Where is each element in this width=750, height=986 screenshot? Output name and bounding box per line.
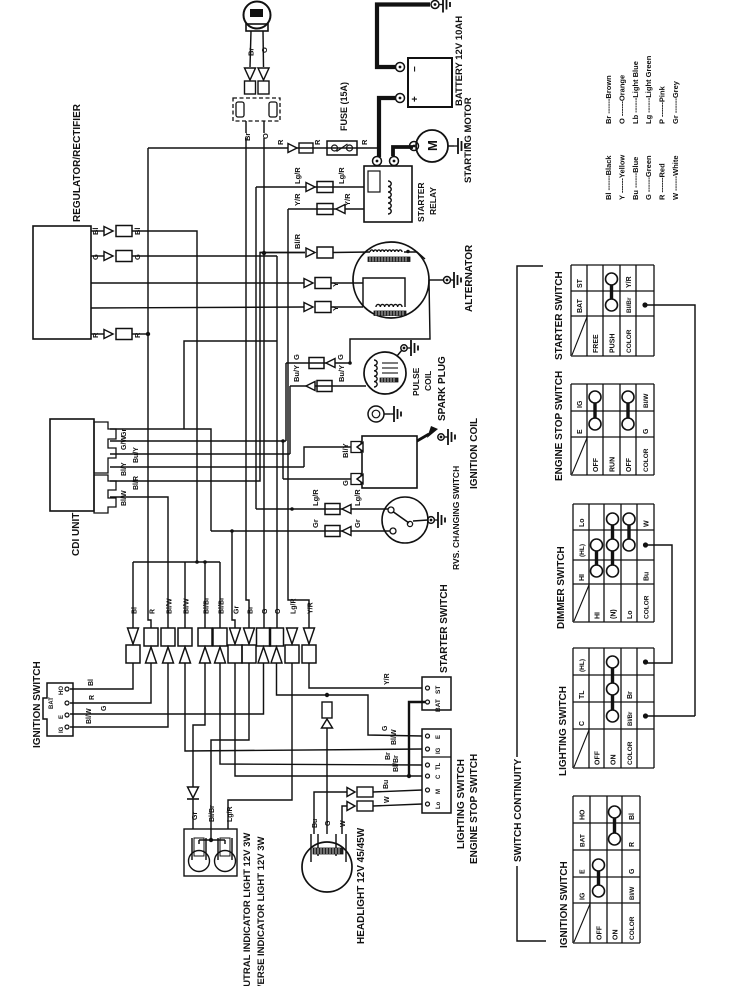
svg-text:C: C xyxy=(436,774,442,779)
bus manifold y562 xyxy=(133,560,220,564)
svg-text:REVERSE INDICATOR LIGHT 12V 3W: REVERSE INDICATOR LIGHT 12V 3W xyxy=(256,836,267,986)
wire Bu headlight xyxy=(314,792,347,834)
svg-text:Bl ------Black: Bl ------Black xyxy=(604,155,613,200)
table LIGHTING SWITCH xyxy=(573,648,654,768)
bank connector R xyxy=(144,609,158,663)
wire G/W cdi xyxy=(110,440,286,442)
starter relay box xyxy=(364,157,412,223)
ignition coil HT lead arrow xyxy=(417,426,438,441)
wire Gr to indicator xyxy=(192,799,194,829)
svg-text:Lo: Lo xyxy=(436,801,442,809)
svg-text:G: G xyxy=(262,608,269,614)
svg-text:IGNITION SWITCH: IGNITION SWITCH xyxy=(32,661,43,748)
regulator Y wire 2 xyxy=(91,307,304,308)
svg-text:STARTER SWITCH: STARTER SWITCH xyxy=(554,271,565,360)
wire Bl/Y bus xyxy=(110,466,304,468)
fuse FUSE(15A) xyxy=(327,141,357,155)
svg-text:BAT: BAT xyxy=(435,699,442,712)
bold wire BAT to Bl/Br xyxy=(409,702,425,776)
svg-text:HI: HI xyxy=(579,574,586,581)
svg-text:Gr: Gr xyxy=(353,519,362,528)
svg-text:(HL): (HL) xyxy=(579,544,586,557)
wire Bl/Y to coil xyxy=(304,447,351,467)
connector pair Bl/R xyxy=(306,247,333,258)
svg-text:Lb ------Light Blue: Lb ------Light Blue xyxy=(631,61,640,124)
svg-text:HO: HO xyxy=(579,809,586,820)
wire Br continues down xyxy=(245,121,247,133)
diode xyxy=(187,787,199,799)
wire alternator down xyxy=(350,280,430,363)
svg-text:Bl/Br: Bl/Br xyxy=(393,755,400,772)
svg-text:ENGINE STOP SWITCH: ENGINE STOP SWITCH xyxy=(554,371,565,481)
svg-text:W: W xyxy=(384,796,391,803)
svg-text:Br: Br xyxy=(247,48,256,56)
svg-text:SWITCH CONTINUITY: SWITCH CONTINUITY xyxy=(513,758,524,862)
indicator lights box xyxy=(184,829,237,876)
svg-text:W: W xyxy=(643,520,650,527)
connector pair Lg/R rvs xyxy=(325,504,351,515)
svg-text:BAT: BAT xyxy=(577,298,584,313)
svg-text:W ------White: W ------White xyxy=(671,155,680,200)
svg-text:IG: IG xyxy=(436,747,442,754)
wire G headlight xyxy=(326,727,328,834)
svg-text:Lg/R: Lg/R xyxy=(353,489,362,506)
wire Y/R to relay xyxy=(288,208,364,210)
svg-text:STARTER: STARTER xyxy=(416,182,426,222)
svg-text:IGNITION COIL: IGNITION COIL xyxy=(469,418,480,489)
wire Gr cdi xyxy=(110,429,211,531)
svg-text:Bl: Bl xyxy=(132,607,139,614)
svg-text:COLOR: COLOR xyxy=(627,741,634,765)
pulse coil circle xyxy=(364,352,406,394)
starting motor ground xyxy=(454,145,458,147)
connector pair W xyxy=(347,801,373,811)
wire R to fuse xyxy=(148,147,377,149)
svg-text:HEADLIGHT 12V 45/45W: HEADLIGHT 12V 45/45W xyxy=(356,827,367,944)
wire G to headlight junction xyxy=(277,663,423,736)
svg-text:COLOR: COLOR xyxy=(629,916,636,940)
bank connector Bl/W xyxy=(178,598,192,663)
svg-text:−: − xyxy=(410,66,421,72)
svg-text:Gr: Gr xyxy=(234,606,241,614)
svg-text:Bl/W: Bl/W xyxy=(167,598,174,614)
wire jog y341 xyxy=(184,341,277,429)
svg-text:E: E xyxy=(436,735,442,739)
svg-text:OFF: OFF xyxy=(593,457,600,472)
wire Bl to ignition sw xyxy=(70,663,133,689)
svg-text:O: O xyxy=(261,133,270,139)
wire G regulator junction xyxy=(276,256,278,628)
wire Y1 into alternator xyxy=(331,282,363,284)
svg-text:CDI UNIT: CDI UNIT xyxy=(71,513,82,556)
svg-text:W: W xyxy=(340,820,347,827)
wire G bus xyxy=(285,363,287,441)
svg-text:REGULATOR/RECTIFIER: REGULATOR/RECTIFIER xyxy=(72,103,83,222)
svg-text:G ------Green: G ------Green xyxy=(644,155,653,200)
svg-text:Gr: Gr xyxy=(121,429,128,437)
svg-text:G: G xyxy=(292,354,301,360)
left bulb xyxy=(189,838,210,872)
svg-text:IG: IG xyxy=(579,892,586,900)
svg-text:Bl/Br: Bl/Br xyxy=(628,711,634,726)
wire Bl/R to alternator xyxy=(260,252,305,254)
pulse coil ground xyxy=(397,340,418,356)
svg-text:COLOR: COLOR xyxy=(626,329,633,353)
rvs changing switch xyxy=(382,497,434,543)
svg-text:IGNITION SWITCH: IGNITION SWITCH xyxy=(559,861,570,948)
svg-text:E: E xyxy=(577,429,584,434)
svg-text:P ------Pink: P ------Pink xyxy=(658,85,667,124)
CDI connector housing upper xyxy=(94,422,116,473)
wire Br to lighting sw xyxy=(220,663,422,765)
svg-text:G: G xyxy=(643,428,650,434)
alternator stator coil xyxy=(368,250,425,262)
svg-text:NEUTRAL INDICATOR LIGHT 12V 3W: NEUTRAL INDICATOR LIGHT 12V 3W xyxy=(242,833,253,986)
bank connector Lg/R xyxy=(285,598,299,663)
svg-text:Bl/Br: Bl/Br xyxy=(626,297,633,313)
svg-text:Bl/Br: Bl/Br xyxy=(209,805,216,822)
connector pair G pulse xyxy=(309,358,335,369)
svg-text:LIGHTING SWITCH: LIGHTING SWITCH xyxy=(558,686,569,776)
svg-text:Y/R: Y/R xyxy=(384,673,391,685)
svg-text:Bu ------Blue: Bu ------Blue xyxy=(631,157,640,200)
svg-text:Bl/W: Bl/W xyxy=(184,598,191,614)
HT ground xyxy=(438,429,455,445)
svg-text:R: R xyxy=(150,609,157,614)
svg-text:RELAY: RELAY xyxy=(428,187,438,215)
svg-text:Bl: Bl xyxy=(88,679,95,686)
svg-text:C: C xyxy=(579,721,586,726)
wire Br from key switch xyxy=(250,31,251,67)
bank connector Y/R xyxy=(302,602,316,663)
svg-text:OFF: OFF xyxy=(596,925,603,940)
starting motor M xyxy=(410,130,455,162)
svg-text:Lg ------Light Green: Lg ------Light Green xyxy=(644,55,653,124)
wire Bl/Br to indicator xyxy=(211,663,249,829)
bank connector Bl/W xyxy=(161,598,175,663)
bus v205 xyxy=(204,562,206,628)
svg-text:O ------Orange: O ------Orange xyxy=(617,75,626,124)
wire Y/R to starter sw xyxy=(309,663,422,688)
svg-text:ENGINE STOP SWITCH: ENGINE STOP SWITCH xyxy=(469,754,480,864)
svg-text:Bu: Bu xyxy=(312,819,319,828)
wire Bu to switch xyxy=(373,790,422,792)
ignition switch box xyxy=(43,683,73,736)
svg-text:ALTERNATOR: ALTERNATOR xyxy=(464,244,475,312)
bulb common wire xyxy=(199,829,225,844)
svg-text:Bl/W: Bl/W xyxy=(630,886,636,900)
svg-text:Bl: Bl xyxy=(629,813,636,820)
connector pair Y1 xyxy=(304,278,340,289)
wire Gr to rvs xyxy=(211,529,390,533)
regulator G terminal xyxy=(91,251,142,262)
svg-text:COIL: COIL xyxy=(423,371,433,391)
wire O from key switch xyxy=(262,31,265,67)
wire Y/R bus xyxy=(288,209,309,628)
wire Br bus xyxy=(246,138,249,628)
connector arrows below key switch xyxy=(245,68,270,80)
battery cable negative thick xyxy=(377,5,430,68)
wire G from regulator xyxy=(132,255,277,257)
svg-text:G: G xyxy=(382,725,389,731)
svg-text:Lg/R: Lg/R xyxy=(311,489,320,506)
spark plug xyxy=(368,406,390,422)
bank connector Bl/Br xyxy=(198,597,212,663)
svg-text:Lo: Lo xyxy=(579,518,586,527)
svg-text:Br: Br xyxy=(385,752,392,760)
wire to diode xyxy=(193,663,205,787)
dashed connector box xyxy=(233,98,280,121)
svg-text:Br ------Brown: Br ------Brown xyxy=(604,75,613,124)
battery ground top xyxy=(431,0,450,13)
connector pair Y2 xyxy=(304,302,340,313)
bank connector Bl/Br xyxy=(213,597,227,663)
wire Y2 into alternator xyxy=(331,306,363,308)
svg-text:Lo: Lo xyxy=(627,610,634,619)
svg-text:DIMMER SWITCH: DIMMER SWITCH xyxy=(556,546,567,629)
svg-text:R ------Red: R ------Red xyxy=(658,163,667,200)
wire Lg/R to relay xyxy=(256,186,364,188)
svg-text:Y/R: Y/R xyxy=(308,602,315,614)
table DIMMER SWITCH xyxy=(573,504,654,622)
svg-text:R: R xyxy=(360,139,369,145)
svg-text:Bu/Y: Bu/Y xyxy=(292,365,301,382)
svg-text:RUN: RUN xyxy=(609,457,616,472)
wire G to pulse area xyxy=(286,361,352,365)
svg-text:G: G xyxy=(133,254,142,260)
svg-text:Br: Br xyxy=(627,691,634,699)
svg-text:Bl/W: Bl/W xyxy=(121,490,128,506)
wire W to switch xyxy=(373,804,422,806)
CDI unit box xyxy=(50,419,94,511)
wire Bl/Br to lighting sw xyxy=(235,663,422,778)
svg-text:+: + xyxy=(410,96,421,102)
svg-text:Bu: Bu xyxy=(383,780,390,789)
svg-text:Bl/Br: Bl/Br xyxy=(219,597,226,614)
svg-text:Bl/R: Bl/R xyxy=(133,476,140,490)
svg-text:Br: Br xyxy=(248,606,255,614)
bus v220 xyxy=(219,562,221,628)
svg-text:Y/R: Y/R xyxy=(343,193,352,206)
svg-text:G: G xyxy=(101,705,108,711)
svg-text:R: R xyxy=(313,139,322,145)
svg-text:ST: ST xyxy=(435,686,442,694)
svg-text:Y ------Yellow: Y ------Yellow xyxy=(617,155,626,200)
wire G coil bus xyxy=(281,439,285,479)
connector pair Bu xyxy=(347,787,373,797)
bank connector Gr xyxy=(228,606,242,663)
wire R regulator to bus xyxy=(132,333,148,335)
svg-text:IG: IG xyxy=(59,726,65,733)
svg-text:FUSE (15A): FUSE (15A) xyxy=(339,82,349,131)
bus v232 Gr xyxy=(232,531,235,628)
svg-text:R: R xyxy=(89,695,96,700)
rvs switch ground xyxy=(434,519,438,521)
wire Bu/Y bus xyxy=(289,386,291,454)
svg-text:(N): (N) xyxy=(610,609,617,619)
svg-text:Y/R: Y/R xyxy=(626,276,633,288)
battery BATTERY 12V 10AH xyxy=(396,58,453,107)
svg-text:Bl/Y: Bl/Y xyxy=(341,443,350,458)
cable relay to motor thick xyxy=(393,147,413,156)
svg-text:TL: TL xyxy=(579,690,586,699)
svg-text:Bl/Br: Bl/Br xyxy=(204,597,211,614)
alternator inner box xyxy=(363,278,406,316)
wire O bus xyxy=(263,138,265,628)
svg-text:ON: ON xyxy=(610,755,617,766)
CDI connector housing lower xyxy=(94,475,116,513)
svg-text:LIGHTING SWITCH: LIGHTING SWITCH xyxy=(456,759,467,849)
connector pair Lg/R xyxy=(306,182,333,193)
svg-text:IG: IG xyxy=(577,400,584,408)
svg-text:Bl/W: Bl/W xyxy=(86,708,93,724)
svg-text:M: M xyxy=(436,789,442,794)
svg-text:(HL): (HL) xyxy=(579,659,586,672)
wire from lighting C dot xyxy=(647,715,695,717)
svg-text:G: G xyxy=(336,354,345,360)
svg-text:STARTER SWITCH: STARTER SWITCH xyxy=(439,584,450,673)
svg-text:OFF: OFF xyxy=(626,457,633,472)
wire R to ignition sw xyxy=(70,663,151,703)
svg-text:E: E xyxy=(59,715,65,719)
connector pair Gr rvs xyxy=(325,526,351,537)
wire Bl/W to lighting sw xyxy=(185,663,422,751)
bus v185 xyxy=(184,562,186,628)
svg-text:Gr ------Grey: Gr ------Grey xyxy=(671,80,680,124)
wire Bl/R cdi xyxy=(110,251,305,481)
wire G to coil xyxy=(283,478,351,480)
wire Bl/W to ignition sw xyxy=(70,663,168,727)
svg-text:PUSH: PUSH xyxy=(609,334,616,353)
svg-text:Lg/R: Lg/R xyxy=(291,598,298,614)
alternator ground xyxy=(450,279,454,281)
wire Bu/Y to pulse coil xyxy=(290,385,366,387)
bank connector G xyxy=(257,608,271,663)
svg-text:G: G xyxy=(91,254,100,260)
svg-text:O: O xyxy=(275,608,282,614)
svg-text:OFF: OFF xyxy=(594,750,601,765)
table ENGINE STOP SWITCH xyxy=(571,384,654,475)
svg-text:G: G xyxy=(341,480,350,486)
svg-text:Bl/W: Bl/W xyxy=(391,729,398,745)
svg-text:HI: HI xyxy=(594,612,601,619)
svg-text:Lg/R: Lg/R xyxy=(293,167,302,184)
svg-text:Bu: Bu xyxy=(643,572,650,581)
svg-text:TL: TL xyxy=(436,762,442,770)
svg-text:FREE: FREE xyxy=(593,334,600,353)
svg-text:R: R xyxy=(91,332,100,338)
svg-text:Bl/W: Bl/W xyxy=(643,393,650,408)
table IGNITION SWITCH xyxy=(573,796,640,943)
ignition coil box xyxy=(362,436,417,488)
svg-text:HO: HO xyxy=(59,686,65,695)
table STARTER SWITCH xyxy=(571,265,654,356)
wire Bu/Y cdi xyxy=(110,453,290,455)
svg-text:Bl/R: Bl/R xyxy=(293,233,302,249)
switch continuity bracket xyxy=(517,266,546,941)
bank connector O xyxy=(270,608,284,663)
G connector inline xyxy=(322,702,333,728)
wire Bl/W cdi xyxy=(110,497,168,628)
svg-text:G/W: G/W xyxy=(121,436,128,450)
svg-text:Gr: Gr xyxy=(192,812,199,820)
connector pair Y/R xyxy=(317,204,345,215)
svg-text:STARTING MOTOR: STARTING MOTOR xyxy=(463,97,474,183)
svg-text:R: R xyxy=(133,332,142,338)
alternator circle xyxy=(353,242,429,318)
battery cable positive thick xyxy=(379,98,396,157)
wire Bl from regulator xyxy=(132,231,197,562)
svg-text:E: E xyxy=(579,869,586,874)
svg-text:ST: ST xyxy=(577,278,584,288)
svg-text:Bu/Y: Bu/Y xyxy=(133,447,140,463)
right bulb xyxy=(215,838,236,872)
wire Lg/R to rvs xyxy=(256,507,388,511)
svg-text:Bl/Y: Bl/Y xyxy=(121,462,128,476)
starter switch box xyxy=(422,677,451,712)
svg-text:Gr: Gr xyxy=(311,519,320,528)
svg-text:ON: ON xyxy=(612,930,619,941)
svg-text:COLOR: COLOR xyxy=(643,448,650,472)
alternator ground wire xyxy=(429,277,451,284)
wire from starter table dot xyxy=(647,305,695,716)
wire Lg/R to indicator xyxy=(228,663,292,829)
svg-text:BAT: BAT xyxy=(579,834,586,847)
wire W headlight xyxy=(342,806,347,834)
svg-text:Br: Br xyxy=(243,133,252,141)
wire G from ignition sw xyxy=(70,663,264,714)
svg-text:G: G xyxy=(325,820,332,826)
wire Lg/R bus xyxy=(255,187,257,509)
connector pair Bu/Y xyxy=(306,381,332,392)
svg-text:M: M xyxy=(425,140,440,151)
main ignition key switch symbol xyxy=(244,2,271,32)
bank connector Bl xyxy=(126,607,140,663)
wire R bus vertical xyxy=(146,148,151,628)
connector pair on fuse line xyxy=(288,143,313,153)
svg-text:SPARK PLUG: SPARK PLUG xyxy=(437,356,448,421)
wire from dimmer dot xyxy=(647,545,672,663)
ignition coil terminal G xyxy=(341,474,363,487)
svg-text:COLOR: COLOR xyxy=(643,595,650,619)
svg-text:G: G xyxy=(629,868,636,874)
regulator Y wire 1 xyxy=(91,282,304,284)
svg-text:O: O xyxy=(260,47,269,53)
wire Bl/R into coil xyxy=(333,251,370,254)
svg-text:Bu/Y: Bu/Y xyxy=(337,365,346,382)
regulator/rectifier box xyxy=(33,226,91,339)
bus v133 xyxy=(132,562,134,628)
svg-text:PULSE: PULSE xyxy=(411,367,421,396)
spark plug ground xyxy=(390,413,394,415)
svg-text:Y/R: Y/R xyxy=(293,193,302,206)
regulator R terminal xyxy=(91,329,142,340)
svg-text:Lg/R: Lg/R xyxy=(227,806,234,822)
svg-text:BAT: BAT xyxy=(49,697,55,709)
regulator Bl terminal xyxy=(91,226,142,237)
lighting-engine stop switch box xyxy=(422,729,451,813)
bullet connectors xyxy=(245,81,270,94)
svg-text:R: R xyxy=(276,139,285,145)
svg-text:R: R xyxy=(629,842,636,847)
svg-text:BATTERY 12V 10AH: BATTERY 12V 10AH xyxy=(454,16,465,106)
ignition coil terminal Bl/Y xyxy=(341,442,363,459)
svg-text:Lg/R: Lg/R xyxy=(337,167,346,184)
bank connector Br xyxy=(242,606,256,663)
headlight bulb xyxy=(302,834,352,892)
wire O continues down xyxy=(263,121,265,133)
svg-text:RVS. CHANGING SWITCH: RVS. CHANGING SWITCH xyxy=(451,466,461,570)
